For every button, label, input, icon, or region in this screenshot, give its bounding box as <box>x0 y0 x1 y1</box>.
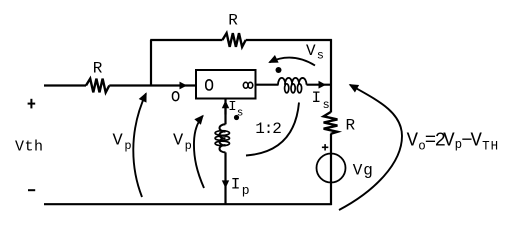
svg-text:V: V <box>173 132 184 151</box>
svg-text:V: V <box>113 132 124 151</box>
svg-text:R: R <box>228 12 238 30</box>
inductor L1 transformer primary winding (vertical) <box>219 124 225 152</box>
resistor R3 (load resistor, vertical) <box>324 112 338 134</box>
wire: left input wire from port to resistor R1 <box>44 84 86 86</box>
svg-text:Vg: Vg <box>353 162 373 180</box>
curved arrow Vs <box>270 58 316 66</box>
curved arrow Vp (right) <box>194 116 204 188</box>
svg-text:V: V <box>306 42 316 60</box>
svg-text:s: s <box>323 98 330 112</box>
wire: secondary to output node <box>307 84 332 86</box>
svg-text:p: p <box>185 139 192 153</box>
wire: below nullor to transformer primary <box>224 99 226 125</box>
wire: bottom rail <box>44 203 332 205</box>
svg-text:p: p <box>242 183 250 198</box>
transformer ratio arc <box>246 103 299 156</box>
dot: primary winding polarity dot <box>234 115 239 120</box>
svg-text:R: R <box>346 116 356 134</box>
svg-text:I: I <box>231 175 241 193</box>
arrow Is on secondary output wire <box>319 81 327 89</box>
arrow Is below nullor (up) <box>222 100 229 108</box>
port minus terminal label <box>28 189 35 191</box>
wire: primary to bottom rail <box>224 152 226 204</box>
svg-text:R: R <box>93 60 103 78</box>
svg-text:1:2: 1:2 <box>255 120 281 138</box>
wire: feedback riser <box>150 40 152 86</box>
plus sign of source Vg <box>322 146 328 148</box>
label infinity inside nullor <box>243 82 248 88</box>
port plus terminal label <box>28 103 36 105</box>
wire: right vertical wire lower part through source <box>330 134 332 205</box>
nullor box U1 <box>196 70 256 99</box>
inductor L2 transformer secondary winding (horizontal) <box>278 78 307 85</box>
curved arrow Vp (left) <box>133 94 146 198</box>
arrow Ip (down) <box>222 180 229 188</box>
svg-text:s: s <box>317 49 324 63</box>
wire: right vertical wire upper part <box>330 39 332 112</box>
wire: top feedback wire right segment <box>246 39 332 41</box>
wire: from R1 to nullor input, junction at node 0 <box>109 84 196 86</box>
svg-text:I: I <box>312 89 322 107</box>
svg-text:Vth: Vth <box>15 138 43 155</box>
wire: top feedback wire left segment <box>150 39 222 41</box>
curved arrow Vo <box>339 85 402 210</box>
svg-text:p: p <box>124 139 131 153</box>
resistor R1 (left series resistor) <box>86 79 109 93</box>
arrow on input wire <box>180 82 188 90</box>
svg-text:I: I <box>228 99 236 115</box>
dot: secondary winding polarity dot <box>276 67 282 73</box>
resistor R2 (feedback resistor) <box>222 33 245 47</box>
wire: nullor output to transformer secondary <box>256 84 279 86</box>
voltage source Vg circle <box>317 154 346 183</box>
node label 0 <box>173 92 179 101</box>
label 0 inside nullor <box>206 80 213 90</box>
